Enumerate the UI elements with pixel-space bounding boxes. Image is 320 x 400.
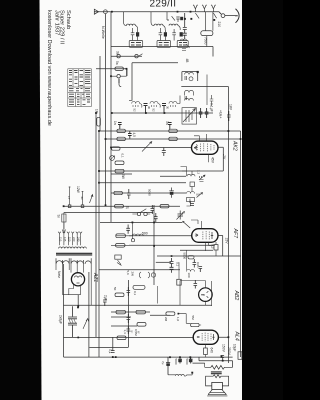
svg-text:15V: 15V — [225, 238, 229, 245]
middle column resistors y305-340 — [115, 285, 199, 326]
line y256 — [157, 255, 241, 257]
svg-text:229/II: 229/II — [150, 0, 177, 9]
oscillator coil block 1 — [185, 71, 199, 81]
svg-text:100: 100 — [188, 198, 192, 203]
svg-text:5a: 5a — [115, 61, 119, 65]
caps bottom middle — [166, 357, 193, 375]
white scan area — [40, 0, 243, 400]
resistor row y235 left — [116, 235, 132, 237]
bus y193 — [111, 192, 186, 194]
resistors on jack line — [115, 205, 124, 208]
svg-text:52: 52 — [133, 109, 137, 113]
transformer core — [56, 253, 92, 255]
svg-text:Jahr 1937: Jahr 1937 — [53, 10, 59, 35]
bottom rail y357 — [64, 356, 233, 358]
svg-text:AF7: AF7 — [232, 228, 238, 240]
line y363 — [193, 357, 233, 367]
dropper resistor 7500 — [201, 31, 213, 36]
svg-text:240: 240 — [76, 237, 80, 242]
svg-text:1n: 1n — [126, 206, 130, 210]
resistors on bus131/139 — [117, 129, 177, 140]
antenna coupling resistor — [115, 67, 124, 70]
osc feed line — [132, 63, 178, 101]
speaker body — [212, 382, 223, 389]
resistor rows y147-174 middle — [112, 147, 121, 150]
svg-text:125: 125 — [63, 237, 67, 242]
svg-text:5,6: 5,6 — [126, 271, 130, 276]
svg-text:100: 100 — [187, 273, 191, 278]
svg-text:5000: 5000 — [148, 189, 152, 196]
cap on AK2 grid line — [162, 148, 166, 157]
svg-text:-2V: -2V — [222, 154, 226, 160]
svg-text:5000: 5000 — [174, 359, 178, 366]
caps on left drop x184.7 — [183, 13, 187, 39]
mains switch — [137, 212, 140, 215]
svg-text:5000: 5000 — [185, 359, 189, 366]
AZ1 loop wiring — [63, 285, 81, 295]
trimmer cap with arrow mid — [177, 211, 185, 220]
speaker cone — [207, 390, 227, 396]
line y245.3 — [129, 244, 213, 246]
antenna terminal circle — [104, 10, 108, 14]
svg-text:Netz: Netz — [57, 271, 61, 278]
svg-text:0,1µF: 0,1µF — [210, 103, 214, 112]
junction dots misc — [77, 112, 241, 361]
bottom coil — [168, 374, 192, 376]
IF coil row y100 — [129, 96, 180, 114]
electrolytic 2x8uF — [68, 306, 77, 337]
svg-text:50: 50 — [113, 287, 117, 291]
bus y171 — [99, 165, 224, 171]
left power bus — [63, 264, 65, 357]
tube AK2 — [192, 134, 219, 162]
svg-text:0,01: 0,01 — [196, 262, 200, 268]
oscillator coil block 3 — [185, 95, 214, 106]
Si fuse — [62, 214, 66, 222]
bus y182.7 — [100, 182, 186, 184]
svg-text:0,3: 0,3 — [211, 244, 215, 249]
osc block verticals — [182, 72, 198, 81]
cap stack right of y262 — [170, 258, 174, 273]
left vertical buses — [95, 113, 97, 337]
svg-text:5M: 5M — [191, 316, 195, 321]
svg-text:250V: 250V — [227, 347, 231, 356]
bus y312-315 — [111, 312, 170, 315]
IF can block 2 — [151, 12, 171, 48]
line y347 — [89, 347, 128, 349]
caps above buses — [118, 123, 172, 139]
antenna line / top bus — [94, 12, 235, 16]
tube AF7 — [192, 221, 218, 251]
secondary windings — [56, 258, 91, 264]
svg-text:640: 640 — [210, 348, 214, 354]
core bars — [211, 372, 222, 374]
tube AB2 — [199, 281, 213, 306]
svg-text:4,5: 4,5 — [132, 133, 136, 138]
svg-text:4B: 4B — [185, 59, 189, 63]
wave change switch contacts — [117, 55, 120, 58]
vertical feed to lamp resistor — [179, 250, 186, 279]
bus y131 — [100, 56, 241, 131]
switch arms below bus — [195, 13, 216, 18]
stamp voltage table — [68, 69, 92, 107]
wires mid-bottom right — [178, 314, 201, 325]
bus under IF cans — [111, 47, 213, 57]
svg-text:AZ1: AZ1 — [92, 272, 98, 282]
mains terminals (Y forks) — [193, 5, 216, 12]
svg-text:7500: 7500 — [204, 37, 208, 45]
svg-text:Si: Si — [57, 215, 61, 218]
AK2 grid line — [111, 147, 223, 165]
svg-text:7µ: 7µ — [161, 361, 165, 365]
bus y174 — [111, 173, 132, 175]
junction dots top bus — [111, 11, 191, 13]
svg-text:0,1: 0,1 — [133, 291, 137, 296]
AF7 grid line — [129, 236, 223, 257]
cathode resistor 640 — [204, 348, 208, 355]
tube AL4 — [193, 330, 218, 348]
svg-text:0,1: 0,1 — [121, 154, 125, 159]
svg-text:500: 500 — [142, 232, 148, 236]
svg-text:kostenloser Download von www.r: kostenloser Download von www.raupenhaus.… — [46, 10, 52, 126]
bus y222.4 — [100, 221, 182, 223]
output transformer + speaker — [205, 363, 233, 386]
primary winding — [59, 247, 87, 249]
svg-text:18V: 18V — [229, 104, 233, 111]
line y262 — [156, 261, 171, 263]
svg-text:2M: 2M — [164, 317, 168, 322]
secondary wires down — [56, 264, 91, 305]
svg-text:5000: 5000 — [183, 253, 187, 260]
svg-text:52: 52 — [152, 109, 156, 113]
stamp table tiny text marks — [69, 71, 91, 105]
right vertical buses — [227, 87, 229, 364]
bus y337 — [64, 336, 229, 338]
line y250 — [180, 249, 213, 251]
svg-text:110: 110 — [59, 237, 63, 242]
svg-text:1n: 1n — [113, 121, 117, 125]
mains plug arc — [235, 9, 239, 23]
bus y305 — [64, 304, 212, 306]
resistor bottom left — [117, 336, 126, 340]
resistor feed line — [96, 69, 127, 76]
tap stems — [60, 235, 81, 245]
svg-text:1,0: 1,0 — [176, 317, 180, 322]
terminal circle right — [221, 14, 225, 18]
svg-text:2c: 2c — [80, 197, 84, 201]
primary zigzag — [205, 365, 233, 369]
trimmer box right — [182, 108, 197, 124]
jack line y206 — [64, 205, 180, 207]
svg-text:5W: 5W — [121, 174, 125, 179]
svg-text:+Ua+: +Ua+ — [219, 110, 223, 118]
line y176 — [160, 175, 186, 177]
svg-text:1,4: 1,4 — [123, 330, 127, 335]
antenna arrow — [94, 9, 98, 14]
line y212.5 — [64, 212, 153, 214]
cathode resistor — [214, 245, 218, 250]
IF can block 3 — [167, 12, 188, 48]
series coil + 500 on AF7 grid line — [126, 225, 130, 234]
svg-text:150V: 150V — [222, 344, 226, 353]
svg-text:30: 30 — [147, 106, 151, 110]
svg-text:45V: 45V — [211, 157, 215, 164]
long right line y86.5 — [181, 86, 228, 88]
svg-text:1,3: 1,3 — [197, 170, 201, 175]
line y326 — [111, 325, 137, 327]
dial lamp — [139, 272, 155, 278]
resistor on left bus — [97, 117, 101, 126]
svg-text:0,1: 0,1 — [108, 349, 112, 354]
svg-text:220: 220 — [72, 237, 76, 242]
tap forks — [58, 232, 61, 236]
svg-text:30: 30 — [166, 106, 170, 110]
oscillator coil block 2 — [185, 90, 194, 100]
wave switch line — [111, 55, 142, 57]
blob cap mid — [170, 192, 174, 195]
svg-text:2x8µF: 2x8µF — [59, 315, 63, 324]
line y317 — [111, 316, 131, 318]
svg-text:Schaub: Schaub — [65, 10, 71, 29]
caps right of trimmer — [199, 108, 209, 118]
svg-text:LY: LY — [67, 196, 71, 199]
phono jacks — [68, 205, 71, 208]
switch arm — [83, 319, 89, 329]
svg-text:AL4: AL4 — [234, 331, 240, 341]
svg-text:210: 210 — [217, 22, 221, 28]
svg-text:3a: 3a — [116, 51, 120, 55]
bus y139 — [106, 138, 241, 140]
svg-text:0,1: 0,1 — [176, 262, 180, 267]
svg-text:AB2: AB2 — [233, 290, 239, 301]
bus y271 — [99, 269, 180, 271]
main wiring — [64, 12, 241, 368]
power transformer — [58, 223, 86, 249]
switch on AK2 grid line — [142, 142, 152, 152]
IF transformer mid right (y176/193 rows) — [187, 171, 205, 192]
svg-text:10µF: 10µF — [233, 344, 237, 351]
IF can block 1 — [124, 12, 143, 48]
arrow in — [62, 223, 66, 233]
svg-text:150: 150 — [67, 237, 71, 242]
main bus y113 — [111, 112, 213, 114]
coil bottom left of mains — [181, 39, 190, 51]
secondary loop — [206, 375, 229, 381]
rectifier tube AZ1 — [71, 273, 84, 286]
svg-text:AK2: AK2 — [232, 140, 238, 151]
mid verticals — [153, 205, 155, 285]
grid top arrow — [183, 221, 191, 228]
wire corner top right mid — [181, 167, 187, 177]
svg-text:12W: 12W — [76, 186, 80, 194]
svg-text:N-Welle: N-Welle — [101, 26, 105, 39]
svg-text:2W: 2W — [131, 272, 135, 277]
